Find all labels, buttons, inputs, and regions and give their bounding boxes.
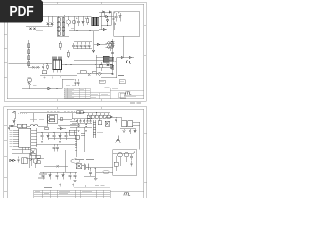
node xl <box>59 125 60 126</box>
varistor RV0 <box>72 16 75 31</box>
resistor R9 <box>110 57 112 61</box>
wire rf in <box>105 116 121 118</box>
capacitor C13 <box>41 133 44 141</box>
diode D12 <box>121 56 124 58</box>
capacitor C35 <box>115 117 117 123</box>
pin ticks bus b <box>75 141 77 150</box>
node N2 <box>65 64 66 65</box>
capacitor C26 <box>56 144 59 152</box>
resistor pack RP2 <box>80 111 83 114</box>
wire fb vert right <box>116 58 118 78</box>
wire xtal out <box>58 118 73 120</box>
plus mark C19p <box>89 116 90 117</box>
capacitor bank rail2 <box>72 122 92 124</box>
node B2 <box>96 112 97 113</box>
capacitor C24 <box>129 129 131 135</box>
text mark u9 <box>97 132 103 134</box>
plus marks snubber <box>114 12 119 13</box>
text note rows <box>38 174 47 178</box>
diode D0 <box>82 16 84 26</box>
plus mark C17p <box>74 119 75 120</box>
title strip right lines <box>110 88 144 97</box>
node M3 <box>65 132 66 133</box>
resistor R21 <box>60 118 63 121</box>
header box H1 <box>87 113 90 119</box>
ground GND1 <box>94 168 98 181</box>
header box H2 <box>91 113 94 119</box>
resistor R1 <box>85 16 88 25</box>
diode D21 <box>110 116 112 118</box>
capacitor C34 <box>57 165 59 167</box>
wire mid link <box>58 125 80 127</box>
capacitor C4 <box>32 66 35 69</box>
resistor R16 <box>114 162 118 166</box>
resistor R20 <box>22 124 26 127</box>
node J1 <box>76 30 77 31</box>
node N1 <box>46 63 47 64</box>
capacitor bank rail1 <box>72 118 92 120</box>
text net label top <box>18 113 28 115</box>
node M2 <box>53 132 54 133</box>
ferrite FB1 <box>75 135 79 139</box>
antenna E1 <box>116 136 120 143</box>
test point TP1 flag <box>12 111 15 119</box>
capacitor C14 <box>53 133 56 141</box>
wire vertical bus b <box>76 127 78 157</box>
text label above mcu <box>30 119 44 121</box>
capacitor C17 <box>79 119 81 124</box>
node J2 <box>64 15 65 16</box>
transformer T1 winding b <box>95 17 98 26</box>
capacitor CY1 <box>30 28 32 30</box>
node N3 <box>70 64 71 65</box>
resistor bank right <box>111 41 115 46</box>
capacitor C22 <box>85 123 87 127</box>
capacitor row C10 <box>88 42 91 49</box>
wire bottom long <box>22 79 75 89</box>
resistor R6b <box>47 64 49 71</box>
svg-text:ITL: ITL <box>124 191 131 196</box>
ground G2b <box>85 131 87 132</box>
resistor R11 <box>93 71 97 73</box>
wire conn row <box>14 125 48 127</box>
capacitor C23 <box>123 129 125 133</box>
crystal Y1 module <box>48 115 58 124</box>
capacitor C33 polarized <box>130 151 135 160</box>
text marks above table <box>59 184 105 188</box>
capacitor C4b <box>42 64 44 70</box>
capacitor C15 <box>65 133 68 141</box>
wire low link <box>84 175 95 177</box>
diode D13 <box>13 118 15 125</box>
wire feedback rail2 <box>74 60 113 62</box>
text P5 <box>127 61 131 63</box>
wire under badge <box>26 26 52 28</box>
wire sec horizontal <box>94 44 108 46</box>
diode D17 <box>13 159 15 161</box>
wire fb rail3 <box>96 67 113 69</box>
bridge block BR1 <box>106 42 115 51</box>
transistor Q1 <box>33 155 38 168</box>
diode D7 <box>106 15 108 17</box>
wire rail3 <box>36 143 77 145</box>
wire right vertical <box>139 122 141 149</box>
capacitor C37 <box>8 128 10 131</box>
text pin labels mcu <box>10 130 13 146</box>
header ladder J3 <box>93 120 96 138</box>
wire caps bottom <box>74 48 92 50</box>
wire vertical bus a <box>83 127 85 152</box>
wire sec vertical <box>93 31 95 51</box>
capacitor C1 <box>76 16 80 26</box>
text mark input <box>36 30 43 32</box>
wire rect network v2 <box>103 12 105 17</box>
wire right leads1 <box>133 121 140 123</box>
wire mid rail <box>37 132 77 134</box>
diode D15 <box>59 133 61 141</box>
wire pre-title <box>74 186 110 188</box>
wire inside shield <box>115 156 117 162</box>
frame ticks page1 <box>4 2 146 101</box>
inductor L3 hump <box>30 124 38 126</box>
transistor Q4 <box>124 153 128 157</box>
wire q4 drop <box>126 157 128 162</box>
annotation oval 2 <box>103 170 109 174</box>
svg-text:PDF: PDF <box>10 4 34 20</box>
capacitor C5 <box>37 66 40 69</box>
capacitor C12 <box>111 52 114 53</box>
wire vertical x65 <box>64 150 66 172</box>
diode D8 <box>106 20 108 22</box>
capacitor C39 <box>77 79 79 86</box>
wire rect network v1 <box>100 12 102 30</box>
diode D18 <box>49 172 51 179</box>
wire right leads2 <box>133 124 140 126</box>
wire rect network h3 <box>101 25 111 27</box>
capacitor C6 <box>72 43 75 49</box>
wire xtal vert <box>71 113 73 120</box>
wire aux link <box>57 127 66 129</box>
text note <box>118 75 124 77</box>
node M1 <box>41 132 42 133</box>
stub wires mcu to caps <box>70 121 77 130</box>
capacitor C18 <box>83 119 85 124</box>
annotation oval <box>71 159 80 163</box>
MCU U5 <box>13 128 37 150</box>
wire low rail <box>40 171 77 173</box>
snubber box <box>114 12 140 37</box>
text marks bl <box>33 76 61 86</box>
header box H3 <box>95 113 98 119</box>
resistor R8 <box>42 71 47 74</box>
capacitor CY2 <box>34 28 36 30</box>
diode D10 <box>97 43 99 45</box>
IC U7 small <box>122 121 127 127</box>
resistor R14 <box>112 65 114 69</box>
capacitor C36 <box>17 157 19 163</box>
wire aux horiz <box>117 57 134 59</box>
diode D16 <box>134 129 136 133</box>
capacitor C29 <box>56 172 59 179</box>
regulator U6 <box>69 130 75 135</box>
diode D14 <box>47 133 49 141</box>
svg-text:ITL: ITL <box>125 90 132 95</box>
wire q3 drop <box>119 157 121 166</box>
capacitor row C7 <box>76 42 79 49</box>
wire bottom row <box>77 72 113 74</box>
resistor pack RP1 <box>77 111 80 114</box>
varistor RV2 <box>105 121 110 126</box>
wire AC mains rail <box>43 15 92 17</box>
MOSFET Q2 <box>82 164 89 171</box>
resistor R12 <box>112 43 114 47</box>
frame ticks page2 <box>4 107 147 191</box>
wire fb rail4 <box>101 77 117 79</box>
text net names above bus <box>47 110 75 112</box>
IC U8 small <box>128 121 133 127</box>
diode D9 <box>119 13 121 22</box>
wire rect network h4 <box>99 29 107 31</box>
transformer T2 core <box>53 57 62 70</box>
resistor R10 <box>110 64 112 68</box>
capacitor CX1 <box>51 16 53 27</box>
wire vertical right <box>95 55 97 76</box>
capacitor C16 <box>76 119 78 124</box>
wire right column <box>112 39 114 75</box>
node J3 <box>89 30 90 31</box>
wire mid out <box>44 166 68 168</box>
wire q col <box>29 153 31 168</box>
wire output row <box>69 30 99 32</box>
header box H4 <box>99 113 102 119</box>
ground GM1 <box>41 141 43 142</box>
diode D20 <box>30 152 32 166</box>
wire right leads3 <box>120 128 136 130</box>
header box H5 <box>103 113 106 119</box>
capacitor C19 <box>86 119 88 124</box>
wire caps rail <box>74 41 92 43</box>
title table page2 <box>34 190 144 198</box>
wire out rail <box>89 167 114 169</box>
wire diode row <box>10 159 14 161</box>
capacitor C3c <box>114 22 116 31</box>
capacitor C3b <box>112 18 114 22</box>
plus mark fb <box>114 61 115 62</box>
capacitor CF2 <box>111 74 113 75</box>
logo box <box>120 93 126 98</box>
resistor R17 <box>37 155 41 158</box>
capacitor C38 <box>74 79 76 86</box>
optocoupler U3 <box>103 56 109 62</box>
ground GM2 <box>59 141 61 142</box>
fuse F1 <box>47 16 49 27</box>
wire bottom rail <box>40 75 77 77</box>
transistor Q3 <box>118 153 122 157</box>
wire rect network h1 <box>99 11 111 13</box>
diode D10b <box>92 50 94 52</box>
diode D12b <box>129 56 132 58</box>
node N4 <box>95 64 96 65</box>
text mark ob <box>71 28 74 30</box>
thermistor RT1 stack <box>28 77 32 89</box>
capacitor C21 <box>77 123 79 127</box>
diode D9b <box>103 28 105 30</box>
resistor string RA (4 in series) <box>57 16 60 36</box>
capacitor C25 <box>53 144 56 152</box>
wire mcu vert <box>21 147 23 153</box>
node BL1 <box>56 88 57 89</box>
capacitor C20 <box>89 119 91 124</box>
text title rows <box>65 86 110 98</box>
capacitor C11 <box>88 74 91 77</box>
wire below MCU <box>12 152 36 154</box>
resistor R3 <box>28 50 30 54</box>
wire rail2 <box>48 138 77 140</box>
wire rect network h2 <box>99 16 114 18</box>
capacitor C27 <box>74 172 77 181</box>
wire lower junction <box>29 67 41 69</box>
wire column bottom <box>57 35 69 37</box>
IC U9 small <box>98 118 102 125</box>
text labels mid <box>75 159 94 161</box>
wire mid low <box>96 171 114 173</box>
node B1 <box>83 112 84 113</box>
wire T2 pins <box>54 70 61 73</box>
diode D19 <box>62 172 64 179</box>
resistor R4 <box>28 56 30 60</box>
title block page1 <box>64 88 126 98</box>
resistor R19 <box>17 124 21 127</box>
wire mid rail left <box>9 63 53 65</box>
text table entries <box>35 188 92 194</box>
wire rect network v4 <box>110 12 112 26</box>
ground G2a <box>77 131 79 132</box>
switch box SW1 <box>30 149 36 156</box>
capacitor bank rail3 <box>74 126 92 128</box>
connector CN2 <box>119 80 125 84</box>
resistor string RB (4 in series) <box>62 17 65 36</box>
wire aux vert <box>122 36 124 58</box>
text subtitle right <box>126 96 136 98</box>
wire mid rail right <box>62 64 113 66</box>
resistor R7 <box>67 50 69 58</box>
wire relay out <box>26 158 44 160</box>
transformer T1 winding a <box>92 17 95 26</box>
capacitor C30 <box>69 172 72 179</box>
resistor R22 <box>45 127 49 130</box>
diode D11 <box>98 72 102 76</box>
capacitor C31 <box>89 168 92 176</box>
junction block <box>81 134 85 136</box>
node NW2 <box>107 25 108 26</box>
diode D5 <box>103 11 105 13</box>
shunt reg U4 <box>99 62 103 71</box>
relay K1 <box>22 158 28 164</box>
wire feedback rail1 <box>96 56 113 58</box>
node O1 <box>90 167 91 168</box>
resistor R2 <box>28 44 30 48</box>
text caption under page1 <box>130 102 141 104</box>
connector J2 pin circles <box>10 125 14 127</box>
node O2 <box>94 167 95 168</box>
capacitor row C8 <box>80 42 83 49</box>
wire rf vert <box>120 117 122 121</box>
header box H6 <box>107 113 110 119</box>
wire left vertical <box>46 114 48 126</box>
label box NOTE <box>99 80 105 83</box>
resistor R13 <box>112 57 114 61</box>
resistor R6 <box>59 41 61 50</box>
neon lamp NE1 <box>66 16 70 27</box>
capacitor C40 <box>130 161 132 167</box>
wire rect network v3 <box>107 17 109 26</box>
wire bus drop <box>32 113 34 123</box>
node NW1 <box>100 16 101 17</box>
capacitor C28 <box>42 172 45 179</box>
capacitor C3 <box>115 13 118 22</box>
wire shield rail <box>113 153 135 155</box>
wire left divider chain <box>28 40 30 68</box>
wire top bus <box>20 112 110 114</box>
diode D6 <box>109 11 111 13</box>
capacitor CF1 <box>107 64 109 66</box>
capacitor row C9 <box>84 42 87 49</box>
wire inside shield2 <box>115 166 117 171</box>
varistor RV1 <box>76 164 82 169</box>
diode D22 <box>48 87 51 89</box>
wire mcu bottom2 <box>12 148 30 150</box>
resistor R5 <box>28 62 30 66</box>
resistor R18 <box>37 161 41 164</box>
shield box <box>113 150 137 176</box>
inductor L1 <box>80 71 86 74</box>
